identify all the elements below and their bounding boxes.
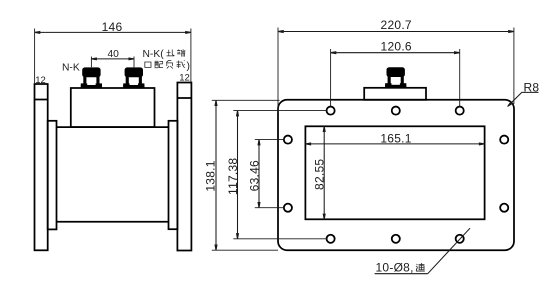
connector J3 [385,67,406,88]
flange right [177,83,191,251]
hub right [169,121,178,229]
hole right-upper [500,136,508,144]
dimension 220.7 [278,28,514,114]
svg-text:165.1: 165.1 [380,131,411,145]
leader R8 [508,92,539,106]
svg-text:120.6: 120.6 [381,40,412,54]
tube top wire [57,126,169,128]
svg-text:N-K(: N-K( [143,49,165,60]
hole right-lower [500,204,508,212]
svg-text:12: 12 [35,75,46,86]
hole bottom-left [327,235,335,243]
dimension 138.1 [212,100,280,250]
svg-text:63.46: 63.46 [248,160,262,191]
svg-text:117.38: 117.38 [226,158,240,195]
window opening [305,126,484,219]
hole top-mid [392,107,400,115]
dimension 165.1 [305,143,484,145]
svg-text:220.7: 220.7 [381,18,412,32]
hole bottom-mid [392,235,400,243]
hole bottom-right [456,235,464,243]
svg-text:N-K: N-K [62,63,80,74]
svg-text:82.55: 82.55 [312,159,326,190]
coupler body [71,88,155,127]
boss [364,88,426,100]
dimension 63.46 [255,140,284,208]
svg-text:146: 146 [102,20,123,34]
hole top-right [456,107,464,115]
hub left [48,121,57,230]
svg-text:12: 12 [179,73,190,84]
dimension 82.55 [323,126,325,219]
dimension 117.38 [233,111,326,239]
flange left [35,84,48,250]
label kou pei fu zai) [145,62,151,67]
svg-text:138.1: 138.1 [203,160,217,191]
dimension 120.6 [331,49,460,106]
mounting plate [278,100,514,250]
svg-text:10-Ø8,: 10-Ø8, [376,261,414,275]
connector J2 [123,67,144,88]
hole left-lower [284,204,292,212]
leader 10-o8 [375,228,470,274]
tube bottom wire [57,221,169,223]
svg-text:): ) [187,61,190,72]
svg-text:40: 40 [107,49,119,60]
dimension 146 [35,29,191,85]
dimension 40 [91,57,134,68]
hole left-upper [284,136,292,144]
connector J1 [81,67,102,88]
hole top-left [284,107,508,243]
